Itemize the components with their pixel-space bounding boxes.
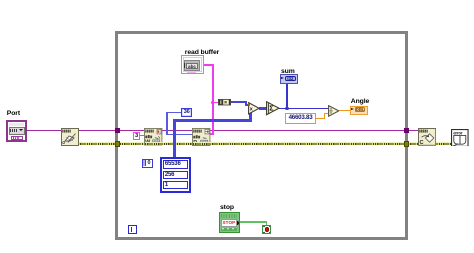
icon: VISA Write — [144, 128, 162, 145]
while loop border — [115, 31, 409, 240]
indicator: read buffer string terminal — [181, 55, 204, 74]
tunnel olive left — [115, 141, 121, 147]
icon: VISA Close — [418, 128, 436, 146]
wire: pink string read-buffer riser — [204, 64, 214, 66]
coercion dot — [248, 103, 251, 106]
tunnel magenta left — [115, 128, 121, 134]
indicator: Angle DBL terminal — [350, 106, 368, 115]
wire: green boolean stop to condition — [240, 221, 267, 222]
loop iteration terminal i — [128, 225, 137, 234]
wire: olive error dashed main run — [78, 142, 452, 145]
wire: blue byte count 36 to VISA Read — [166, 112, 181, 113]
label sum — [281, 69, 295, 76]
label stop — [220, 205, 234, 212]
function: multiply — [248, 102, 260, 115]
wire: multiply to sigma (thick blue) — [259, 107, 267, 109]
wire: error dash overlay across VISA Read bottom — [193, 142, 211, 145]
loop condition terminal — [262, 225, 271, 234]
svg-text:Σ: Σ — [269, 106, 273, 113]
svg-text:x: x — [250, 107, 253, 113]
wire: sum terminal riser + junction dot — [286, 84, 288, 109]
indicator: sum I32 terminal — [280, 74, 299, 84]
wire: divide to Angle terminal (orange) — [338, 110, 350, 111]
icon: VISA Read — [192, 128, 210, 146]
control: stop button terminal — [219, 212, 241, 233]
label Port — [7, 111, 20, 118]
function: divide — [328, 105, 339, 117]
wire: orange 46603.83 to divide — [316, 118, 325, 119]
icon: simple error handler — [451, 129, 469, 147]
svg-text:error: error — [453, 130, 463, 135]
tunnel magenta right — [404, 128, 410, 134]
icon: VISA Configure Serial Port — [61, 128, 79, 146]
tunnel olive right — [404, 141, 410, 147]
constant: pink string "3" — [133, 132, 140, 141]
icon: string to byte array — [218, 99, 231, 105]
constant: blue "36" byte count — [181, 108, 192, 117]
wire: magenta VISA resource main run — [27, 130, 419, 132]
array constant: element column — [160, 157, 191, 193]
wire: thick blue array constant riser + run to multiply — [173, 119, 176, 158]
label Angle — [351, 99, 369, 106]
label read buffer — [185, 50, 219, 57]
array constant: index box — [142, 159, 153, 168]
constant: 46603.83 — [285, 113, 315, 123]
wire: pink string "3" to VISA Write — [140, 135, 145, 137]
function: add array elements (sigma) — [266, 101, 280, 115]
junction dot on string wire — [211, 101, 214, 104]
wire: thick blue byte-array to multiply top input — [231, 101, 248, 103]
control: VISA resource name (Port) — [6, 120, 27, 142]
svg-text:C: C — [419, 140, 423, 146]
wire: sigma out to divide (thin blue) — [279, 108, 329, 110]
wire: error dash overlay across VISA Write bottom — [145, 142, 163, 145]
